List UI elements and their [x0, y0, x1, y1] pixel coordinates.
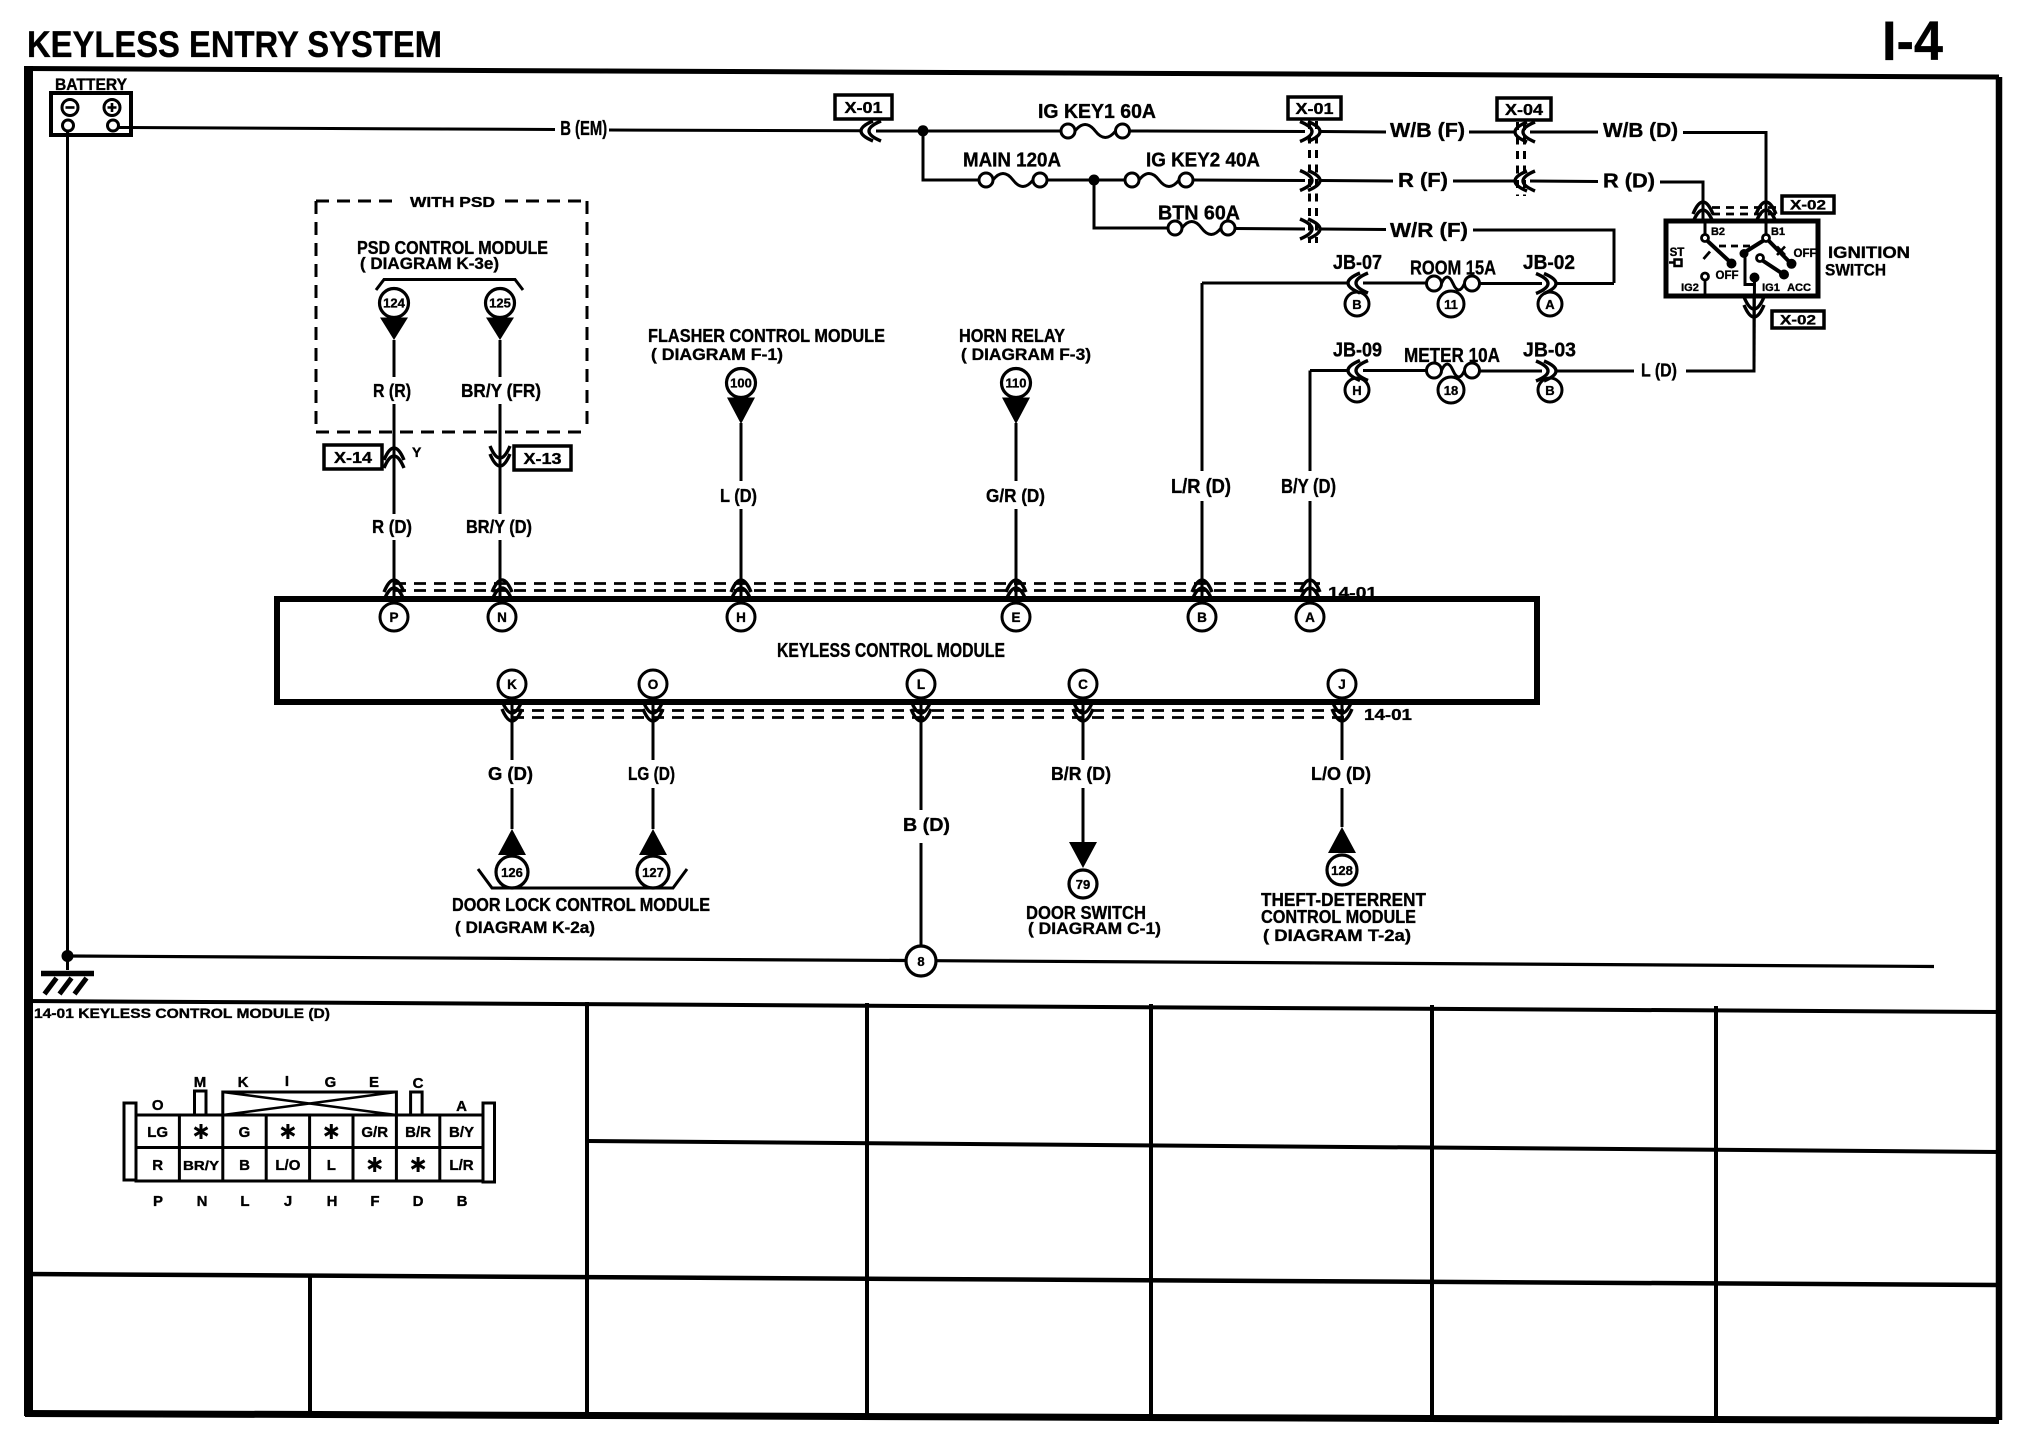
svg-text:X-02: X-02: [1790, 197, 1826, 213]
svg-text:( DIAGRAM K-3e): ( DIAGRAM K-3e): [360, 254, 499, 273]
svg-text:O: O: [648, 677, 659, 692]
svg-text:X-13: X-13: [524, 451, 562, 468]
svg-text:J: J: [284, 1193, 292, 1210]
svg-text:W/R (F): W/R (F): [1390, 220, 1468, 242]
svg-text:JB-03: JB-03: [1523, 340, 1576, 362]
svg-text:G/R: G/R: [361, 1124, 388, 1141]
svg-text:( DIAGRAM K-2a): ( DIAGRAM K-2a): [455, 918, 595, 937]
svg-text:L/O (D): L/O (D): [1311, 764, 1371, 784]
svg-text:LG: LG: [147, 1124, 168, 1141]
svg-text:DOOR LOCK CONTROL MODULE: DOOR LOCK CONTROL MODULE: [452, 895, 710, 915]
svg-text:110: 110: [1006, 376, 1027, 391]
svg-text:IGNITION: IGNITION: [1828, 243, 1910, 262]
svg-text:JB-02: JB-02: [1523, 252, 1575, 274]
svg-text:B/Y (D): B/Y (D): [1281, 476, 1336, 498]
svg-text:B (EM): B (EM): [560, 118, 607, 140]
svg-text:JB-09: JB-09: [1333, 340, 1382, 362]
svg-text:B/R (D): B/R (D): [1051, 764, 1111, 784]
svg-text:C: C: [1078, 677, 1088, 692]
svg-text:R (F): R (F): [1398, 170, 1448, 192]
svg-text:8: 8: [917, 954, 924, 969]
svg-text:C: C: [413, 1075, 424, 1092]
svg-text:H: H: [736, 610, 746, 625]
svg-text:A: A: [1545, 297, 1555, 312]
svg-text:( DIAGRAM C-1): ( DIAGRAM C-1): [1028, 919, 1161, 938]
svg-text:D: D: [413, 1193, 424, 1210]
svg-text:B (D): B (D): [903, 815, 950, 835]
svg-text:A: A: [1305, 610, 1315, 625]
svg-text:I: I: [285, 1073, 289, 1090]
svg-text:M: M: [194, 1074, 207, 1091]
svg-text:R (D): R (D): [1603, 171, 1655, 193]
svg-text:E: E: [369, 1074, 379, 1091]
svg-text:ST: ST: [1670, 247, 1685, 259]
svg-text:L: L: [917, 677, 925, 692]
svg-text:IG KEY1 60A: IG KEY1 60A: [1038, 101, 1156, 123]
svg-text:L/O: L/O: [275, 1157, 300, 1174]
svg-text:N: N: [497, 610, 507, 625]
svg-text:14-01 KEYLESS CONTROL MODUL: 14-01 KEYLESS CONTROL MODULE (D): [34, 1005, 330, 1021]
svg-text:126: 126: [501, 865, 523, 880]
svg-text:X-01: X-01: [845, 100, 883, 117]
svg-text:W/B (F): W/B (F): [1390, 120, 1465, 142]
svg-text:100: 100: [730, 376, 752, 391]
svg-text:L/R: L/R: [449, 1157, 473, 1174]
svg-text:SWITCH: SWITCH: [1825, 261, 1886, 280]
svg-text:FLASHER CONTROL MODULE: FLASHER CONTROL MODULE: [648, 326, 885, 346]
svg-text:HORN RELAY: HORN RELAY: [959, 326, 1065, 346]
svg-text:W/B (D): W/B (D): [1603, 120, 1678, 142]
svg-text:14-01: 14-01: [1364, 707, 1412, 724]
svg-text:OFF: OFF: [1716, 270, 1739, 282]
svg-text:128: 128: [1331, 863, 1353, 878]
svg-text:L: L: [327, 1157, 336, 1174]
svg-text:KEYLESS CONTROL MODULE: KEYLESS CONTROL MODULE: [777, 640, 1005, 662]
svg-text:X-01: X-01: [1296, 101, 1334, 118]
svg-text:IG KEY2 40A: IG KEY2 40A: [1146, 150, 1260, 172]
svg-text:F: F: [370, 1193, 379, 1210]
svg-text:L (D): L (D): [1641, 361, 1677, 381]
svg-text:X-04: X-04: [1505, 102, 1543, 119]
svg-text:K: K: [238, 1074, 249, 1091]
svg-text:L (D): L (D): [720, 486, 757, 506]
svg-text:BR/Y (FR): BR/Y (FR): [461, 381, 541, 401]
svg-text:B: B: [457, 1193, 468, 1210]
svg-text:X-02: X-02: [1780, 312, 1816, 328]
svg-text:I-4: I-4: [1882, 9, 1943, 72]
svg-text:11: 11: [1444, 297, 1458, 312]
svg-text:B: B: [1197, 610, 1207, 625]
svg-text:G/R (D): G/R (D): [986, 486, 1045, 506]
svg-text:B2: B2: [1711, 226, 1725, 238]
svg-text:L/R (D): L/R (D): [1171, 476, 1231, 498]
svg-text:P: P: [153, 1193, 163, 1210]
svg-text:( DIAGRAM F-3): ( DIAGRAM F-3): [961, 345, 1091, 364]
svg-text:O: O: [152, 1097, 164, 1114]
svg-text:J: J: [1338, 677, 1346, 692]
svg-text:BTN 60A: BTN 60A: [1158, 203, 1240, 225]
svg-text:H: H: [1352, 383, 1361, 398]
svg-text:K: K: [507, 677, 517, 692]
svg-text:A: A: [456, 1098, 467, 1115]
svg-text:R (D): R (D): [372, 517, 412, 537]
svg-text:G: G: [239, 1124, 251, 1141]
svg-text:MAIN 120A: MAIN 120A: [963, 150, 1061, 172]
svg-text:R (R): R (R): [373, 381, 411, 401]
svg-text:( DIAGRAM F-1): ( DIAGRAM F-1): [651, 345, 783, 364]
svg-text:IG1: IG1: [1762, 282, 1780, 294]
svg-text:L: L: [240, 1193, 249, 1210]
svg-text:P: P: [389, 610, 398, 625]
svg-text:IG2: IG2: [1681, 282, 1699, 294]
svg-text:18: 18: [1444, 383, 1458, 398]
svg-text:CONTROL MODULE: CONTROL MODULE: [1261, 907, 1416, 927]
svg-text:JB-07: JB-07: [1333, 252, 1382, 274]
svg-text:H: H: [327, 1193, 338, 1210]
svg-text:127: 127: [642, 865, 664, 880]
svg-text:ROOM 15A: ROOM 15A: [1410, 258, 1496, 280]
svg-text:B/R: B/R: [405, 1124, 431, 1141]
svg-text:N: N: [197, 1193, 208, 1210]
svg-text:ACC: ACC: [1787, 282, 1811, 294]
svg-text:LG (D): LG (D): [628, 764, 675, 784]
svg-text:R: R: [152, 1157, 163, 1174]
svg-text:METER 10A: METER 10A: [1404, 345, 1500, 367]
svg-text:BR/Y: BR/Y: [183, 1159, 220, 1173]
svg-text:BR/Y (D): BR/Y (D): [466, 517, 532, 537]
svg-text:X-14: X-14: [334, 450, 372, 467]
svg-text:B: B: [1352, 297, 1361, 312]
svg-text:G (D): G (D): [488, 764, 533, 784]
svg-text:B/Y: B/Y: [449, 1124, 474, 1141]
svg-text:KEYLESS ENTRY SYSTEM: KEYLESS ENTRY SYSTEM: [27, 24, 442, 65]
svg-text:125: 125: [489, 296, 511, 311]
svg-text:79: 79: [1076, 877, 1090, 892]
svg-text:E: E: [1011, 610, 1020, 625]
svg-text:G: G: [325, 1074, 337, 1091]
svg-text:OFF: OFF: [1794, 248, 1817, 260]
svg-text:WITH PSD: WITH PSD: [410, 194, 495, 211]
svg-text:B1: B1: [1771, 226, 1785, 238]
svg-text:B: B: [1545, 383, 1554, 398]
svg-text:Y: Y: [412, 444, 422, 460]
svg-text:( DIAGRAM T-2a): ( DIAGRAM T-2a): [1263, 926, 1411, 945]
svg-text:B: B: [239, 1157, 250, 1174]
svg-text:124: 124: [383, 296, 405, 311]
